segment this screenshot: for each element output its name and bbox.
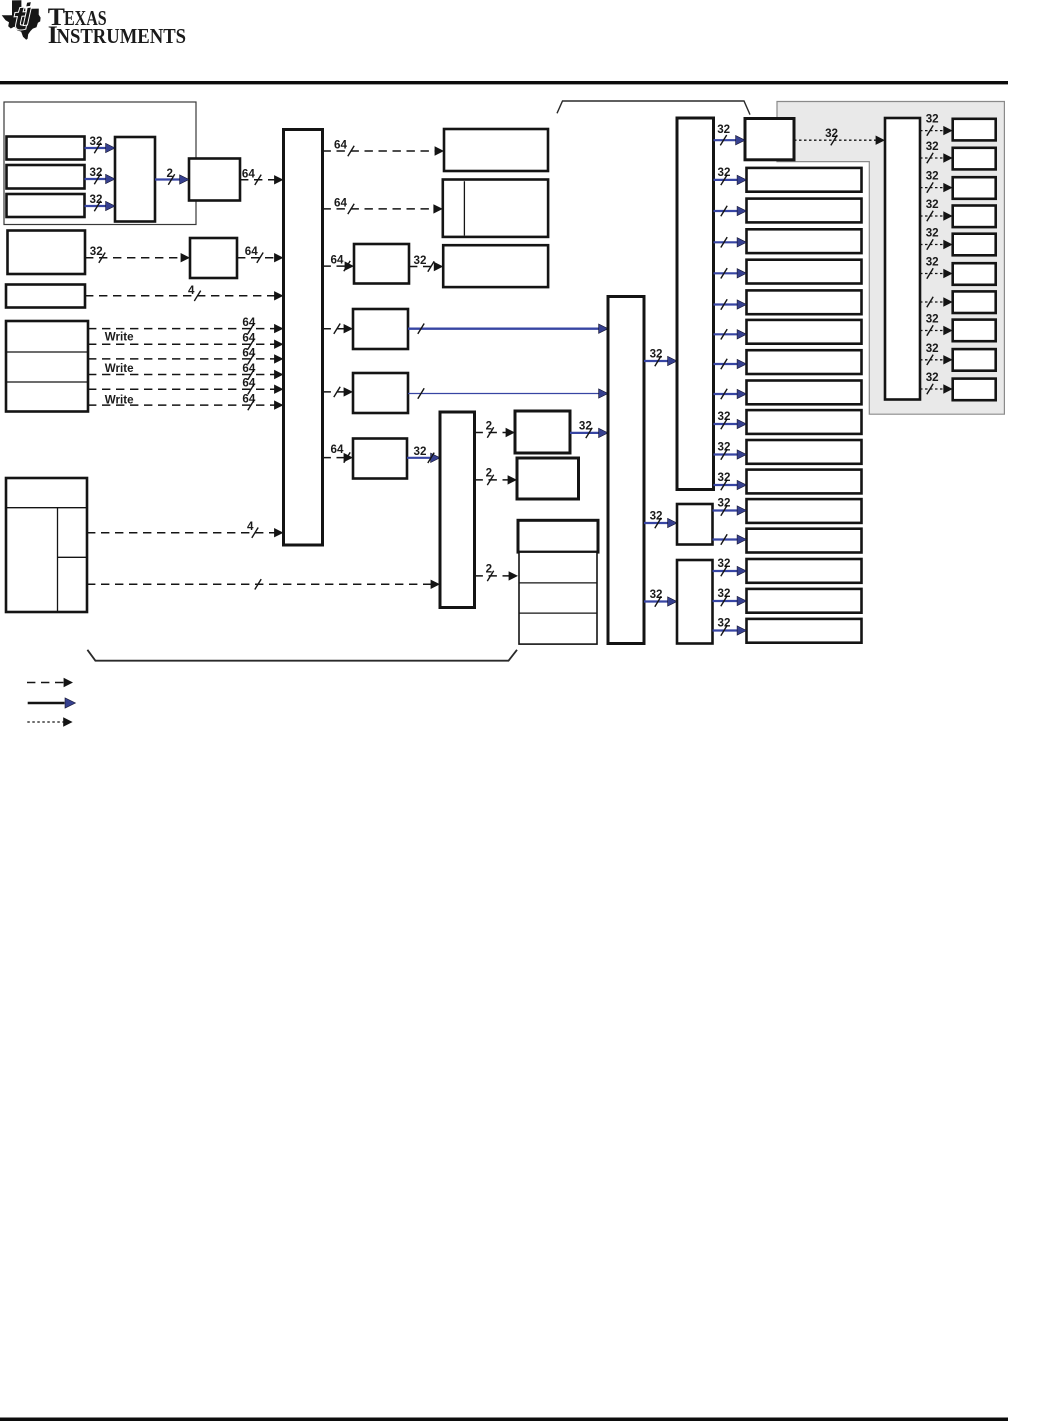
- bus arrow to RB9 32: [714, 410, 747, 429]
- svg-text:32: 32: [926, 256, 939, 269]
- register box RB10: [747, 440, 862, 464]
- box G2 dispatch unit: [189, 159, 240, 201]
- legend dotted arrow: [27, 717, 72, 726]
- bus arrow to RB11 32: [714, 471, 747, 490]
- mux M1 instruction mux: [115, 137, 155, 222]
- svg-text:64: 64: [242, 377, 255, 390]
- svg-text:32: 32: [926, 170, 939, 183]
- bus arrow colB to B1 2: [475, 420, 516, 438]
- register box RB4: [747, 260, 862, 284]
- bus arrow L6 read 2 to crossbar 64: [88, 346, 284, 364]
- bus arrow colD to PB5 32: [920, 227, 953, 250]
- pin box PB4: [953, 206, 996, 228]
- register box RB14: [747, 559, 862, 583]
- box R1 L1P memory: [444, 129, 548, 171]
- bus arrow to RB1 32: [714, 166, 747, 185]
- pin box PB6: [953, 263, 996, 285]
- bus arrow G3 to crossbar 64: [237, 245, 284, 263]
- svg-text:64: 64: [242, 316, 255, 329]
- colC register bus: [677, 118, 714, 490]
- bus arrow L2 to M1 32: [85, 166, 116, 184]
- bus arrow XB to B6 64: [323, 443, 354, 463]
- box L7 right cell divider: [58, 556, 88, 558]
- bus arrow M1 to G2 2: [155, 167, 189, 185]
- pin box PB9: [953, 349, 996, 371]
- bus arrow colD to PB6 32: [920, 256, 953, 279]
- gray shaded region: [777, 102, 1004, 415]
- fetch group outline: [4, 102, 196, 225]
- bus arrow colD to PB10 32: [920, 371, 953, 394]
- register box RB2: [747, 199, 862, 223]
- bus arrow colD to PB8 32: [920, 313, 953, 336]
- svg-text:2: 2: [486, 420, 492, 433]
- box L6 row divider 1: [6, 351, 88, 353]
- legend solid arrow with blue head: [28, 698, 76, 708]
- bus arrow colB to B2 2: [475, 467, 518, 486]
- svg-text:32: 32: [414, 254, 427, 267]
- svg-text:4: 4: [188, 284, 195, 297]
- pin box PB3: [953, 177, 996, 199]
- bus arrow T to colD 32: [794, 127, 885, 145]
- bus arrow colD to PB2 32: [920, 140, 953, 163]
- svg-text:2: 2: [486, 563, 492, 576]
- box L4 program control: [8, 231, 86, 275]
- box L7 vertical divider: [57, 508, 59, 612]
- svg-text:32: 32: [414, 445, 427, 458]
- box S2 power down logic: [677, 560, 713, 644]
- bus arrow L7 to crossbar 4: [87, 520, 284, 538]
- bus arrow L3 to M1 32: [85, 193, 116, 211]
- box B3a peripheral bridge: [354, 244, 409, 284]
- svg-text:32: 32: [718, 410, 731, 423]
- register box RB5: [747, 290, 862, 314]
- stack row divider 2: [519, 612, 597, 614]
- svg-text:2: 2: [486, 467, 492, 480]
- legend dashed arrow: [27, 678, 73, 687]
- svg-text:Write: Write: [105, 362, 134, 375]
- svg-text:32: 32: [579, 420, 592, 433]
- bus arrow to RB6: [714, 329, 747, 339]
- register box RB12: [747, 499, 862, 523]
- bus arrow to RB8: [714, 389, 747, 399]
- bus arrow to RB5: [714, 299, 747, 309]
- crossbar XB switch fabric: [284, 130, 323, 546]
- bus arrow colB to stack 2: [475, 563, 519, 582]
- register box RB3: [747, 229, 862, 253]
- bus arrow L1 to M1 32: [85, 135, 116, 153]
- svg-text:32: 32: [825, 127, 838, 140]
- box B4 bridge 1: [353, 309, 408, 349]
- svg-text:32: 32: [90, 245, 103, 258]
- svg-text:64: 64: [331, 443, 344, 456]
- box L3 fetch buffer C: [7, 194, 85, 217]
- svg-text:32: 32: [718, 617, 731, 630]
- svg-text:64: 64: [242, 332, 255, 345]
- bus arrow B4 to colM blue: [408, 324, 608, 334]
- bus arrow colD to PB1 32: [920, 113, 953, 136]
- bus arrow to RB16 32: [713, 617, 747, 636]
- bus arrow colC to T 32: [714, 123, 746, 145]
- box L6 data cache controller: [6, 321, 88, 412]
- pin box PB7: [953, 291, 996, 313]
- bus arrow to RB13: [713, 534, 747, 544]
- register box RB7: [747, 350, 862, 374]
- box R2 inner partition: [463, 181, 465, 235]
- TI logo wordmark TEXAS INSTRUMENTS: [48, 2, 186, 49]
- box S1 interrupt selector: [677, 504, 713, 545]
- bus arrow to RB12 32: [713, 497, 747, 516]
- svg-text:32: 32: [926, 198, 939, 211]
- bus arrow B6 to colB 32: [407, 445, 440, 463]
- svg-text:32: 32: [90, 193, 103, 206]
- pin box PB1: [953, 119, 996, 141]
- box R3 L2 memory: [443, 245, 548, 287]
- box L2 fetch buffer B: [7, 165, 85, 189]
- svg-text:32: 32: [650, 588, 663, 601]
- pin box PB8: [953, 320, 996, 342]
- svg-text:64: 64: [242, 362, 255, 375]
- svg-text:32: 32: [718, 587, 731, 600]
- register box RB13: [747, 529, 862, 553]
- svg-text:32: 32: [926, 113, 939, 126]
- svg-text:32: 32: [718, 441, 731, 454]
- bus arrow colM to colC 32: [644, 348, 677, 367]
- svg-text:32: 32: [90, 135, 103, 148]
- bus arrow XB to B5: [323, 387, 354, 397]
- register box RB1: [747, 168, 862, 192]
- svg-text:64: 64: [334, 139, 347, 152]
- bus arrow XB to B4: [323, 324, 354, 334]
- bus arrow colD to PB9 32: [920, 342, 953, 365]
- stack row divider 1: [519, 582, 597, 584]
- svg-text:32: 32: [90, 166, 103, 179]
- svg-text:64: 64: [242, 167, 255, 180]
- box B2 serial port: [517, 458, 579, 499]
- svg-text:NSTRUMENTS: NSTRUMENTS: [57, 24, 187, 48]
- pin box PB2: [953, 148, 996, 170]
- bus arrow B5 to colM blue thin: [408, 388, 608, 398]
- box R2 L1D memory: [443, 180, 548, 237]
- bus arrow L6 write 3 to crossbar 64: [88, 393, 284, 411]
- top rule: [0, 81, 1008, 84]
- svg-text:Write: Write: [105, 331, 134, 344]
- bus arrow B3a to R3 32: [409, 254, 443, 272]
- bus arrow colM to S1 32: [644, 510, 677, 529]
- svg-text:32: 32: [718, 557, 731, 570]
- bottom rule: [0, 1418, 1008, 1422]
- stack top GPIO box: [518, 520, 598, 552]
- bus arrow XB to R1 64: [323, 139, 445, 157]
- colD EMIF registers: [885, 118, 920, 400]
- bus arrow to RB10 32: [714, 441, 747, 460]
- box B1 timer port: [515, 411, 570, 453]
- bus arrow B1 to colM 32: [570, 420, 608, 439]
- register box RB6: [747, 320, 862, 344]
- bus arrow to RB15 32: [713, 587, 747, 606]
- svg-text:32: 32: [650, 510, 663, 523]
- svg-text:32: 32: [926, 313, 939, 326]
- svg-text:2: 2: [167, 167, 173, 180]
- bus arrow XB to R2 64: [323, 196, 443, 214]
- box T EMIF control: [745, 119, 794, 160]
- bus arrow colD to PB3 32: [920, 170, 953, 193]
- TI logo Texas map symbol: [2, 0, 41, 40]
- svg-text:64: 64: [242, 346, 255, 359]
- bottom brace: [87, 650, 517, 661]
- bus arrow L6 read 3 to crossbar 64: [88, 377, 284, 395]
- box B5 bridge 2: [353, 373, 408, 413]
- top brace: [557, 101, 750, 115]
- box L7 DMA controller: [6, 478, 87, 612]
- box L6 row divider 2: [6, 381, 88, 383]
- bus arrow G2 to crossbar 64: [240, 167, 284, 185]
- bus arrow to RB7: [714, 359, 747, 369]
- bus arrow L6 write 1 to crossbar 64: [88, 332, 284, 350]
- svg-text:4: 4: [247, 520, 254, 533]
- svg-text:64: 64: [245, 245, 258, 258]
- bus arrow to RB3: [714, 237, 747, 247]
- bus arrow to RB2: [714, 206, 747, 216]
- box L7 horizontal divider: [6, 507, 87, 509]
- bus arrow colM to S2 32: [644, 588, 677, 607]
- bus arrow L5 to crossbar 4: [85, 284, 284, 301]
- bus arrow colD to PB7: [920, 297, 953, 307]
- svg-text:32: 32: [926, 227, 939, 240]
- pin box PB10: [953, 379, 996, 401]
- bus arrow colD to PB4 32: [920, 198, 953, 221]
- bus arrow L6 read 1 to crossbar 64: [88, 316, 284, 334]
- svg-text:64: 64: [242, 393, 255, 406]
- box L1 fetch buffer A: [7, 137, 85, 160]
- svg-text:32: 32: [650, 348, 663, 361]
- box B6 bridge 3: [353, 439, 407, 479]
- svg-text:Write: Write: [105, 393, 134, 406]
- bus arrow L6 write 2 to crossbar 64: [88, 362, 284, 380]
- svg-text:64: 64: [334, 196, 347, 209]
- svg-text:32: 32: [926, 371, 939, 384]
- register box RB11: [747, 470, 862, 494]
- svg-text:32: 32: [718, 166, 731, 179]
- svg-text:32: 32: [926, 140, 939, 153]
- svg-text:32: 32: [718, 471, 731, 484]
- register box RB9: [747, 410, 862, 434]
- svg-text:64: 64: [331, 254, 344, 267]
- register box RB16: [747, 619, 862, 643]
- box L5 control registers: [6, 285, 85, 308]
- pin box PB5: [953, 234, 996, 256]
- stack body peripheral stack: [519, 552, 597, 644]
- register box RB15: [747, 589, 862, 613]
- svg-text:32: 32: [926, 342, 939, 355]
- colB config bus master: [440, 412, 475, 608]
- bus arrow to RB14 32: [713, 557, 747, 576]
- register box RB8: [747, 381, 862, 405]
- svg-text:32: 32: [717, 123, 730, 136]
- bus arrow L7 to colB: [87, 579, 440, 589]
- colM peripheral config bus: [608, 297, 644, 644]
- bus arrow to RB4: [714, 268, 747, 278]
- svg-text:32: 32: [718, 497, 731, 510]
- bus arrow XB to B3a 64: [323, 254, 355, 272]
- box G3 decode unit: [190, 238, 237, 278]
- bus arrow L4 to G3 32: [85, 245, 190, 263]
